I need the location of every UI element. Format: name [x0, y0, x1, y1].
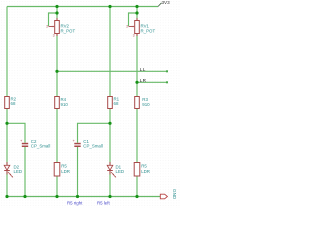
wire column B (RV2/R4/LDR)	[56, 7, 58, 21]
svg-text:LDR: LDR	[141, 169, 150, 174]
photoresistor R5 right	[134, 163, 150, 177]
svg-text:CP_Small: CP_Small	[83, 144, 103, 149]
junction bottom rail x7	[5, 195, 8, 198]
junction R2 bottom	[5, 122, 8, 125]
svg-text:LED: LED	[116, 169, 125, 174]
junction top rail at C	[108, 5, 111, 8]
svg-text:LED: LED	[14, 169, 23, 174]
LED D1	[107, 162, 124, 178]
wire C1 branch	[78, 123, 111, 143]
svg-text:LL: LL	[140, 67, 146, 72]
label 3V3	[158, 0, 170, 6]
junction bottom rail x57	[55, 195, 58, 198]
wire column D (RV1/R3/LDR)	[136, 7, 138, 21]
junction bottom rail x77	[76, 195, 79, 198]
svg-text:R5: R5	[61, 164, 67, 169]
svg-text:CP_Small: CP_Small	[31, 144, 51, 149]
wire C2 branch	[7, 123, 25, 143]
svg-text:LDR: LDR	[61, 169, 70, 174]
svg-text:RV2: RV2	[61, 23, 70, 28]
junction RV2 wiper	[55, 11, 58, 14]
resistor R1	[108, 97, 120, 109]
wire LR	[137, 81, 167, 83]
svg-text:910: 910	[142, 102, 150, 107]
svg-text:R5 right: R5 right	[67, 201, 83, 206]
capacitor C2	[20, 138, 50, 148]
label GND hierarchical	[160, 189, 177, 200]
svg-text:2: 2	[126, 24, 128, 28]
potentiometer RV1	[126, 18, 155, 38]
svg-text:910: 910	[61, 102, 69, 107]
svg-text:68: 68	[11, 101, 16, 106]
resistor R3	[135, 97, 150, 109]
junction LR at D	[135, 81, 138, 84]
svg-text:R_POT: R_POT	[61, 29, 76, 34]
svg-text:R5 left: R5 left	[97, 201, 110, 206]
wire LL	[57, 70, 167, 72]
junction bottom rail x110	[108, 195, 111, 198]
wire top 3V3 rail	[7, 6, 158, 8]
junction LL at B	[55, 70, 58, 73]
junction top rail at B	[55, 5, 58, 8]
junction R1 bottom	[108, 122, 111, 125]
resistor R4	[55, 97, 69, 109]
svg-text:2: 2	[46, 24, 48, 28]
svg-text:3V3: 3V3	[162, 0, 171, 5]
svg-text:R5: R5	[141, 164, 147, 169]
svg-text:LR: LR	[140, 78, 147, 83]
wire RV2 wiper branch	[49, 13, 58, 26]
wire column C (R1/D1)	[109, 7, 111, 97]
junction bottom rail x137	[135, 195, 138, 198]
junction top rail at D	[135, 5, 138, 8]
svg-text:3: 3	[133, 34, 135, 38]
photoresistor R5 left	[54, 163, 70, 177]
junction RV1 wiper	[135, 11, 138, 14]
LED D2	[4, 162, 22, 178]
svg-text:3: 3	[53, 34, 55, 38]
capacitor C1	[73, 138, 103, 148]
svg-text:68: 68	[114, 101, 119, 106]
resistor R2	[5, 97, 17, 109]
junction bottom rail x25	[23, 195, 26, 198]
svg-text:GND: GND	[172, 189, 177, 200]
potentiometer RV2	[46, 18, 75, 38]
wire left rail	[6, 7, 8, 166]
svg-text:RV1: RV1	[141, 23, 150, 28]
wire RV1 wiper branch	[129, 13, 138, 26]
wire bottom GND rail	[7, 196, 160, 198]
svg-text:R_POT: R_POT	[141, 29, 156, 34]
